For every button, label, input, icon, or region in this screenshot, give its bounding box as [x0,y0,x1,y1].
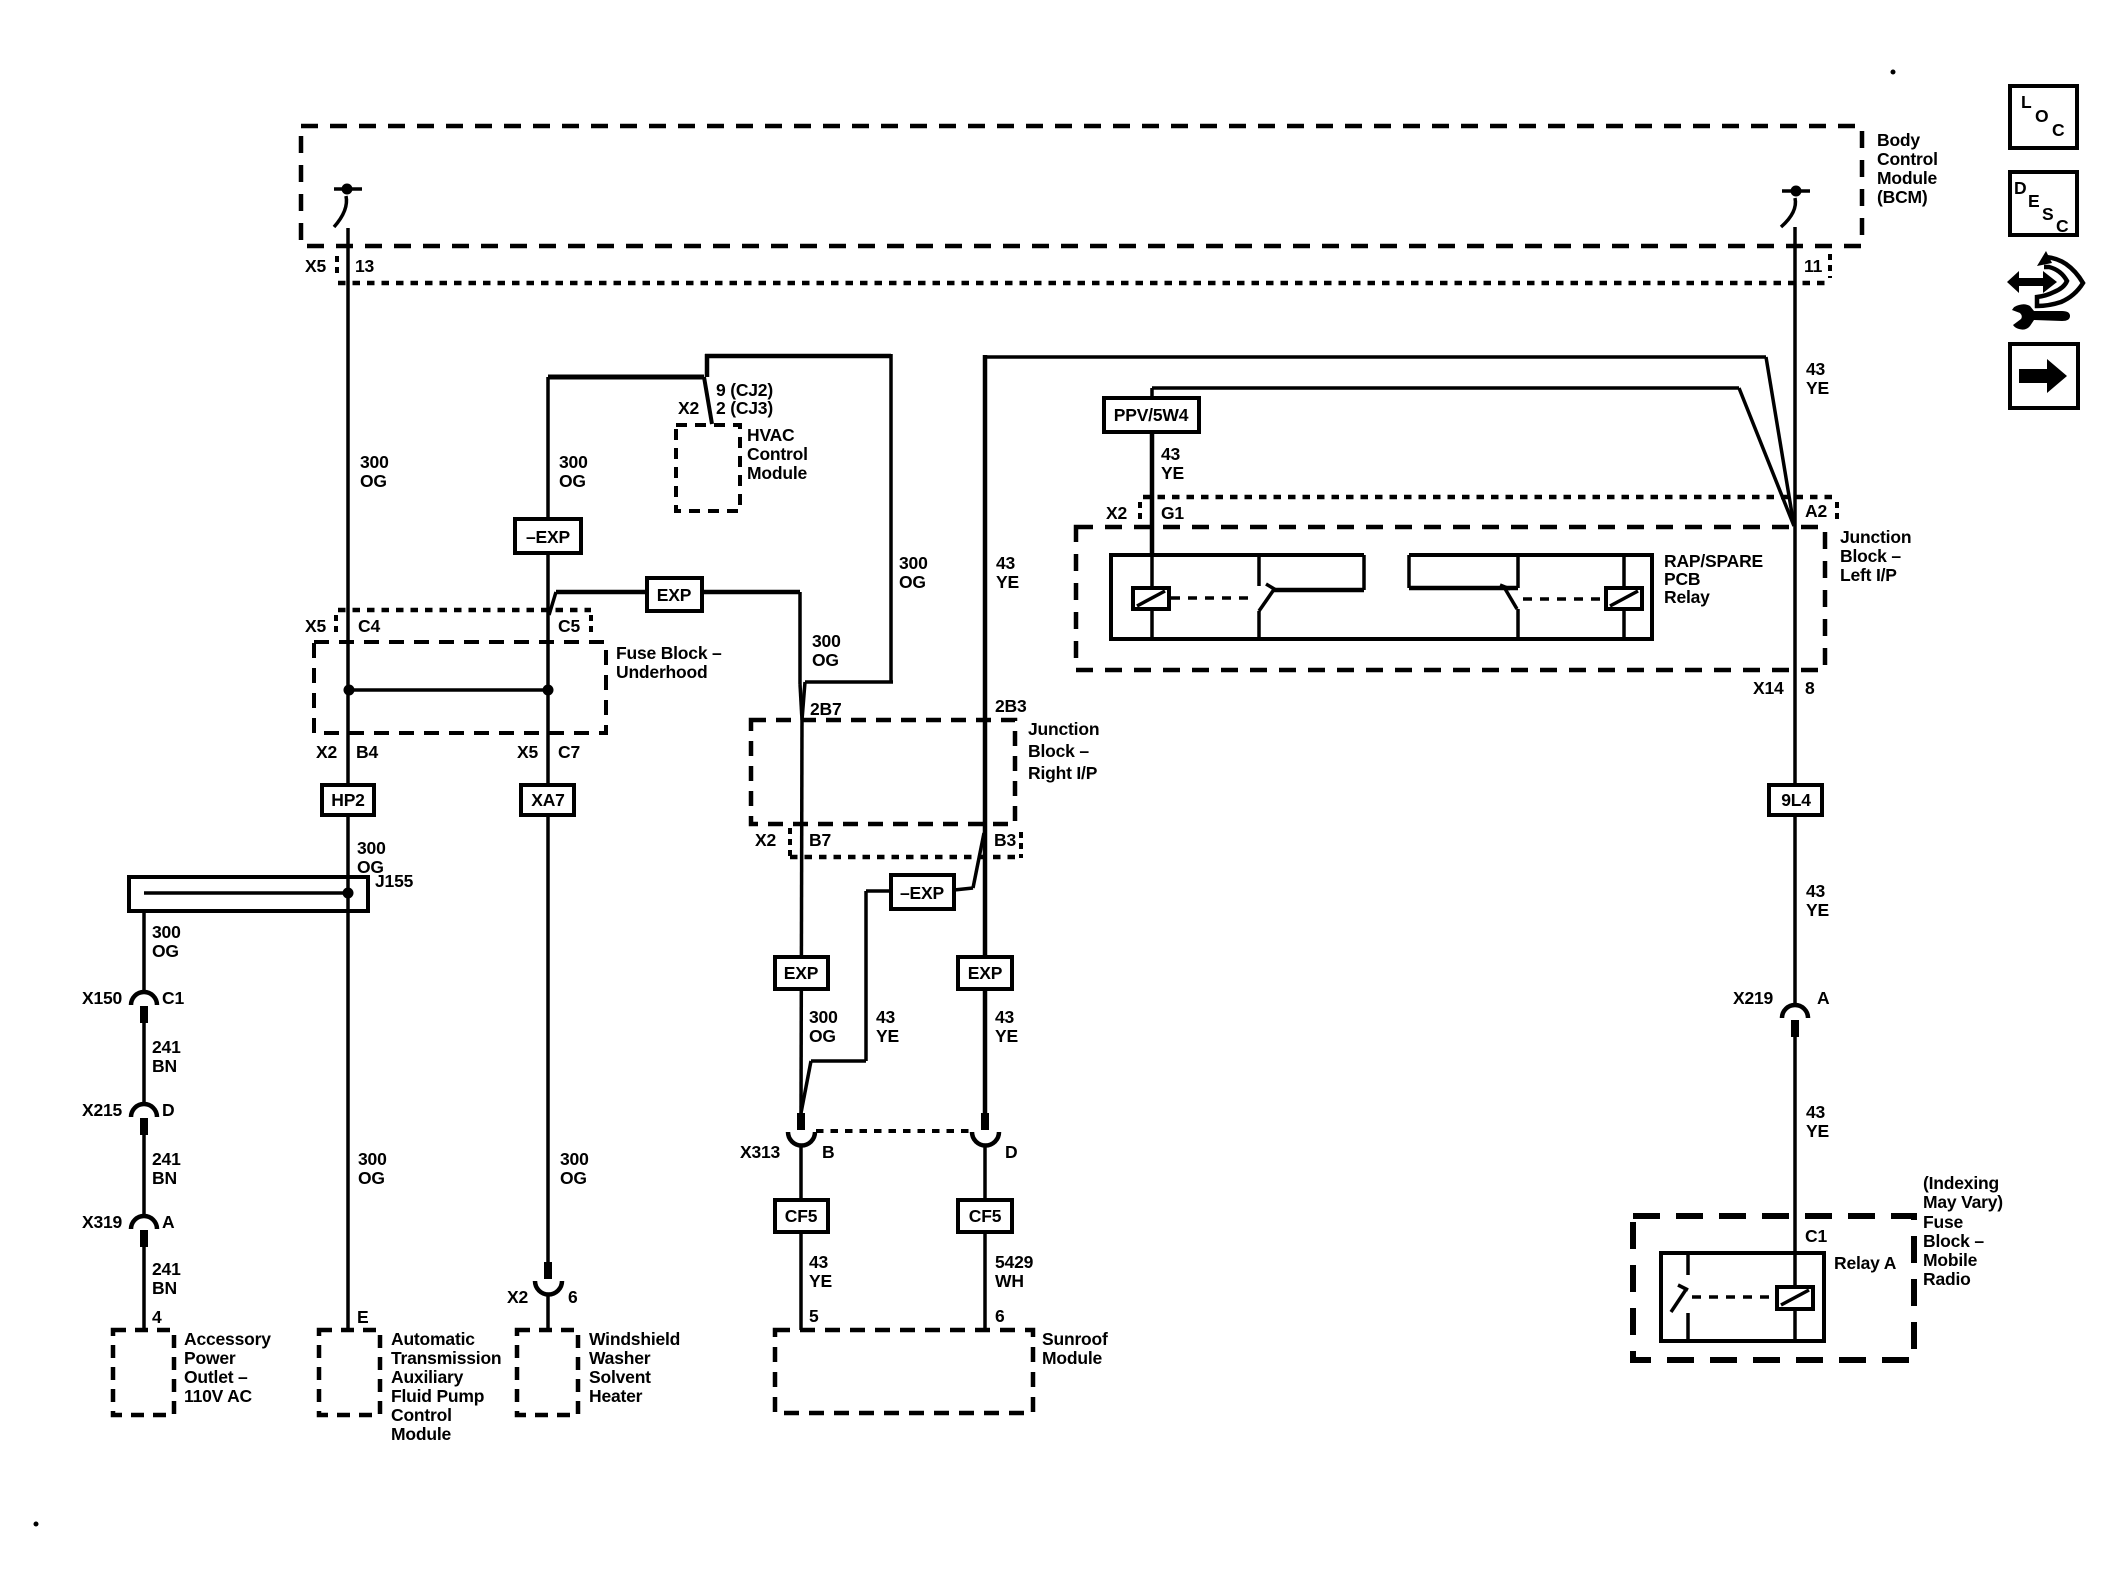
wire label 300 OG (below left EXP) [809,1007,838,1046]
svg-text:X2: X2 [507,1287,528,1307]
svg-text:43: 43 [1161,444,1181,464]
svg-text:300: 300 [559,452,588,472]
HVAC control module dashed connector box [676,425,740,511]
wire 241 BN segment 2 [142,1135,146,1215]
wire into washer heater [546,1294,550,1330]
svg-text:X219: X219 [1733,988,1774,1008]
svg-text:Right I/P: Right I/P [1028,763,1098,783]
wire label 43 YE (below PPV/5W4) [1161,444,1184,483]
svg-text:Fluid Pump: Fluid Pump [391,1386,484,1406]
svg-text:D: D [1005,1142,1017,1162]
expansion EXP box (right, on B3 wire) [958,957,1012,989]
wire label 43 YE (below right EXP) [995,1007,1018,1046]
stray scan dot bottom left [34,1522,39,1527]
relay contact dashed link 1 [1171,596,1254,600]
svg-text:EXP: EXP [968,963,1003,983]
svg-text:RAP/SPARE: RAP/SPARE [1664,551,1763,571]
svg-text:OG: OG [358,1168,385,1188]
svg-text:Power: Power [184,1348,236,1368]
svg-text:X2: X2 [678,398,699,418]
svg-text:Body: Body [1877,130,1920,150]
svg-text:241: 241 [152,1037,181,1057]
svg-text:300: 300 [360,452,389,472]
svg-text:43: 43 [809,1252,829,1272]
svg-text:Module: Module [1877,168,1938,188]
svg-text:43: 43 [996,553,1016,573]
fuse CF5 (right) [958,1200,1012,1232]
LOC nav icon [2010,86,2077,148]
ATF pump module label [391,1329,501,1444]
stray scan dot top right [1891,70,1896,75]
wire: BCM pin 13 vertical (300 OG main feed) [346,228,350,1330]
svg-text:HVAC: HVAC [747,425,795,445]
connector X5 pin labels C4 C5 [305,616,580,636]
wire label 43 YE (below 9L4) [1806,881,1829,920]
svg-text:Module: Module [747,463,808,483]
wire: EXP branch horizontal (300 OG) from C5 to 2B7 drop [549,592,802,720]
svg-text:Block –: Block – [1840,546,1901,566]
svg-text:C: C [2056,216,2069,236]
next page arrow icon [2010,344,2078,408]
svg-text:300: 300 [358,1149,387,1169]
svg-text:CF5: CF5 [969,1206,1002,1226]
svg-text:Relay: Relay [1664,587,1710,607]
DESC nav icon [2010,172,2077,236]
relay A contact dashed link [1692,1295,1775,1299]
svg-text:(Indexing: (Indexing [1923,1173,1999,1193]
wire: B side down to sunroof [799,1145,803,1330]
svg-text:2B3: 2B3 [995,696,1027,716]
svg-text:–EXP: –EXP [526,527,570,547]
expansion EXP box (left, on B7 wire) [775,957,828,989]
diagnostic wrench icon [2007,251,2083,330]
HVAC control module connector X2 labels [678,380,773,418]
fuse 9L4 [1769,785,1822,815]
svg-text:WH: WH [995,1271,1024,1291]
HVAC module name label [747,425,808,483]
pin C1 label [1805,1226,1827,1246]
svg-text:C: C [2052,120,2065,140]
fuse HP2 [322,785,374,815]
Junction Block - Right I/P label [1028,719,1099,783]
svg-text:43: 43 [995,1007,1015,1027]
wire: PPV/5W4 to G1 (43 YE) [1150,432,1155,555]
connector X319 pin A [82,1212,175,1247]
svg-text:YE: YE [1161,463,1184,483]
expansion EXP box (on 300 OG horizontal) [647,578,702,611]
wire label 43 YE (above sunroof pin 5) [809,1252,832,1291]
wire label 300 OG (above washer heater) [560,1149,589,1188]
svg-text:J155: J155 [375,871,414,891]
RAP/SPARE PCB Relay box [1111,555,1652,639]
svg-text:C7: C7 [558,742,580,762]
svg-text:OG: OG [360,471,387,491]
relay switch 1 [1259,555,1364,639]
svg-text:Junction: Junction [1028,719,1099,739]
svg-text:B3: B3 [994,830,1016,850]
svg-text:E: E [2028,191,2039,211]
Sunroof Module label [1042,1329,1108,1368]
svg-text:6: 6 [568,1287,578,1307]
svg-text:C1: C1 [162,988,184,1008]
svg-text:X2: X2 [316,742,337,762]
connector X313 pin D [972,1113,1017,1162]
svg-text:Fuse Block –: Fuse Block – [616,643,722,663]
wire label 241 BN [152,1037,181,1076]
node 2B7 [810,699,842,719]
svg-text:300: 300 [899,553,928,573]
wire: -EXP left leg 43 YE [801,891,891,1113]
svg-text:Module: Module [391,1424,452,1444]
wire label 300 OG (above 2B7) [812,631,841,670]
svg-text:E: E [357,1307,368,1327]
BCM pin 11 label [1804,254,1830,278]
svg-text:YE: YE [809,1271,832,1291]
svg-text:X215: X215 [82,1100,123,1120]
wire: 43 YE riser at x=985 [983,355,988,1113]
svg-text:YE: YE [876,1026,899,1046]
wire label 300 OG (left chain) [152,922,181,961]
svg-text:Auxiliary: Auxiliary [391,1367,464,1387]
svg-text:300: 300 [812,631,841,651]
svg-text:L: L [2021,92,2032,112]
Sunroof Module dashed box [775,1330,1033,1413]
pin 5 label [809,1306,819,1326]
svg-text:D: D [2014,178,2026,198]
wire label 5429 WH (above sunroof pin 6) [995,1252,1034,1291]
wire label 300 OG (upper left) [360,452,389,491]
svg-text:YE: YE [996,572,1019,592]
svg-text:300: 300 [152,922,181,942]
svg-text:BN: BN [152,1278,177,1298]
connector X313 row [816,1129,972,1133]
svg-text:Transmission: Transmission [391,1348,501,1368]
washer heater label [589,1329,680,1406]
svg-text:110V AC: 110V AC [184,1386,253,1406]
node: junction dot right [543,685,554,696]
svg-text:Washer: Washer [589,1348,651,1368]
svg-text:43: 43 [1806,359,1826,379]
svg-text:X14: X14 [1753,678,1784,698]
Accessory Power Outlet label [184,1329,271,1406]
junction block X14 pin 8 labels [1753,678,1815,698]
pin A2 label [1805,501,1827,521]
junction block bottom pin row X2 B7 B3 [755,828,1021,858]
wire: 300 OG loop around HVAC connector to 2B7 [705,354,893,720]
svg-text:13: 13 [355,256,375,276]
svg-text:XA7: XA7 [531,790,564,810]
svg-text:PPV/5W4: PPV/5W4 [1114,405,1189,425]
relay A box [1661,1253,1824,1341]
svg-text:Radio: Radio [1923,1269,1971,1289]
svg-text:300: 300 [560,1149,589,1169]
wire: 43 YE horizontal from PPV/5W4 to A2 (lower) [1152,388,1794,526]
svg-text:Control: Control [391,1405,452,1425]
svg-text:Mobile: Mobile [1923,1250,1978,1270]
wire: 43 YE horizontal to junction block A2 (upper) [985,357,1794,526]
Accessory Power Outlet dashed box [113,1330,174,1415]
svg-text:YE: YE [1806,1121,1829,1141]
connector X150 pin C1 [82,988,184,1023]
svg-text:YE: YE [995,1026,1018,1046]
svg-text:OG: OG [809,1026,836,1046]
svg-text:Outlet –: Outlet – [184,1367,248,1387]
connector X2 pin 6 (washer heater) [507,1262,578,1307]
svg-text:OG: OG [152,941,179,961]
svg-text:43: 43 [1806,1102,1826,1122]
BCM name label [1877,130,1938,207]
Fuse Block - Underhood label [616,643,722,682]
svg-text:X2: X2 [755,830,776,850]
Fuse Block - Mobile Radio dashed box [1633,1216,1914,1360]
svg-text:Junction: Junction [1840,527,1911,547]
wire label 43 YE (left of -EXP leg) [876,1007,899,1046]
Junction Block - Left I/P dashed box [1076,527,1825,670]
relay contact dashed link 2 [1523,597,1604,601]
wire label 300 OG (above E pin) [358,1149,387,1188]
svg-text:C5: C5 [558,616,580,636]
svg-text:X5: X5 [517,742,538,762]
wire: BCM pin 11 vertical (43 YE) [1793,227,1797,1253]
expansion -EXP box (on 300 OG wire) [515,519,581,553]
svg-text:Underhood: Underhood [616,662,708,682]
BCM bottom dotted connector band [338,281,1829,286]
BCM internal switch (left, pin 13) [334,184,362,228]
Body Control Module (BCM) dashed outline [301,126,1862,246]
wire label 43 YE (above mobile radio block) [1806,1102,1829,1141]
svg-text:B7: B7 [809,830,831,850]
wire: 300 OG branch to HVAC (horizontal feed) [548,377,712,424]
svg-text:PCB: PCB [1664,569,1700,589]
relay coil 2 [1606,555,1642,639]
svg-text:43: 43 [876,1007,896,1027]
svg-text:Block –: Block – [1923,1231,1984,1251]
svg-text:5429: 5429 [995,1252,1034,1272]
relay coil 1 (on G1 wire) [1133,555,1169,639]
svg-text:(BCM): (BCM) [1877,187,1928,207]
svg-text:Windshield: Windshield [589,1329,680,1349]
wire: vertical 300 OG through -EXP down to fuse block [546,377,550,690]
svg-text:4: 4 [152,1307,162,1327]
svg-text:May Vary): May Vary) [1923,1192,2003,1212]
svg-text:OG: OG [812,650,839,670]
svg-text:X313: X313 [740,1142,781,1162]
svg-text:Control: Control [1877,149,1938,169]
connector X215 pin D [82,1100,174,1135]
wire label 241 BN [152,1149,181,1188]
wire label 43 YE (x=985 upper) [996,553,1019,592]
svg-text:2B7: 2B7 [810,699,842,719]
Junction Block - Right I/P dashed box [751,720,1015,824]
svg-text:9L4: 9L4 [1781,790,1811,810]
svg-text:8: 8 [1805,678,1815,698]
junction block left I/P top dotted connector row [1140,497,1837,524]
svg-text:Control: Control [747,444,808,464]
connector X2 pin G1 labels [1106,503,1184,523]
wire label 300 OG (right of HVAC loop) [899,553,928,592]
svg-text:D: D [162,1100,174,1120]
svg-text:BN: BN [152,1056,177,1076]
svg-text:9 (CJ2): 9 (CJ2) [716,380,773,400]
fuse XA7 [521,785,574,815]
svg-text:Block –: Block – [1028,741,1089,761]
svg-text:Automatic: Automatic [391,1329,475,1349]
connector X219 pin A [1733,988,1830,1037]
wire label 300 OG (second column upper) [559,452,588,491]
svg-text:YE: YE [1806,900,1829,920]
relay A wire through coil [1793,1253,1797,1341]
svg-text:Sunroof: Sunroof [1042,1329,1108,1349]
wire: diagonal from B3 to -EXP [954,833,984,890]
svg-text:S: S [2042,204,2053,224]
svg-text:OG: OG [560,1168,587,1188]
svg-text:C4: C4 [358,616,380,636]
svg-text:Relay A: Relay A [1834,1253,1897,1273]
svg-text:Solvent: Solvent [589,1367,651,1387]
svg-text:CF5: CF5 [785,1206,818,1226]
svg-text:Module: Module [1042,1348,1103,1368]
svg-text:X5: X5 [305,256,326,276]
wire: D side down to sunroof [983,1145,987,1330]
RAP/SPARE PCB Relay label [1664,551,1763,607]
Fuse Block - Mobile Radio label [1923,1212,1984,1289]
connector X313 pin B [740,1113,834,1162]
svg-text:A: A [1817,988,1830,1008]
svg-text:O: O [2035,106,2048,126]
BCM internal switch (right, pin 11) [1781,186,1810,228]
wire label 43 YE (right, upper) [1806,359,1829,398]
svg-text:A2: A2 [1805,501,1827,521]
pin 4 label [152,1307,162,1327]
svg-text:6: 6 [995,1306,1005,1326]
wire: B7 drop inside junction block [801,720,802,1113]
wire 241 BN segment 3 [142,1247,146,1330]
fuse PPV/5W4 [1104,398,1199,432]
svg-text:EXP: EXP [784,963,819,983]
svg-text:X2: X2 [1106,503,1127,523]
BCM connector X5 pin 13 labels [305,256,375,278]
fuse CF5 (left) [775,1200,828,1232]
svg-text:241: 241 [152,1149,181,1169]
svg-text:Left I/P: Left I/P [1840,565,1897,585]
svg-text:EXP: EXP [657,585,692,605]
svg-text:X319: X319 [82,1212,123,1232]
fuse block underhood top dotted connector row [336,610,591,636]
svg-text:OG: OG [899,572,926,592]
svg-text:B: B [822,1142,834,1162]
svg-text:Accessory: Accessory [184,1329,271,1349]
splice pack J155 [129,871,414,911]
wire: bus inside fuse block [349,688,548,692]
svg-text:–EXP: –EXP [900,883,944,903]
svg-text:300: 300 [809,1007,838,1027]
pin 6 label [995,1306,1005,1326]
fuse block bottom pin labels X2 B4 X5 C7 [316,742,580,762]
svg-text:5: 5 [809,1306,819,1326]
wire label 300 OG (below HP2) [357,838,386,877]
svg-text:B4: B4 [356,742,378,762]
Junction Block - Left I/P label [1840,527,1911,585]
Fuse Block - Underhood dashed box [314,642,606,733]
svg-text:G1: G1 [1161,503,1184,523]
svg-text:HP2: HP2 [331,790,365,810]
Windshield Washer Solvent Heater dashed box [517,1330,578,1415]
Indexing May Vary note [1923,1173,2003,1212]
svg-text:241: 241 [152,1259,181,1279]
wire: XA7 output 300 OG down to washer heater [546,690,550,1262]
svg-text:43: 43 [1806,881,1826,901]
svg-text:11: 11 [1804,256,1823,276]
svg-text:Fuse: Fuse [1923,1212,1964,1232]
svg-text:BN: BN [152,1168,177,1188]
svg-text:X5: X5 [305,616,326,636]
wire label 241 BN [152,1259,181,1298]
Automatic Transmission Auxiliary Fluid Pump Control Module dashed box [319,1330,380,1415]
svg-text:X150: X150 [82,988,123,1008]
svg-text:Heater: Heater [589,1386,643,1406]
wire: 300 OG branch from J155 down [142,911,146,991]
svg-text:A: A [162,1212,175,1232]
svg-text:C1: C1 [1805,1226,1827,1246]
node 2B3 [995,696,1027,716]
Relay A label [1834,1253,1897,1273]
expansion -EXP box (middle) [891,875,954,909]
node: junction dot left [344,685,355,696]
relay A switch [1671,1253,1688,1341]
relay A coil [1777,1287,1813,1309]
pin E label [357,1307,368,1327]
svg-text:YE: YE [1806,378,1829,398]
svg-text:300: 300 [357,838,386,858]
svg-text:2 (CJ3): 2 (CJ3) [716,398,773,418]
wire 241 BN segment 1 [142,1023,146,1103]
svg-text:OG: OG [559,471,586,491]
relay switch 2 [1409,555,1518,639]
